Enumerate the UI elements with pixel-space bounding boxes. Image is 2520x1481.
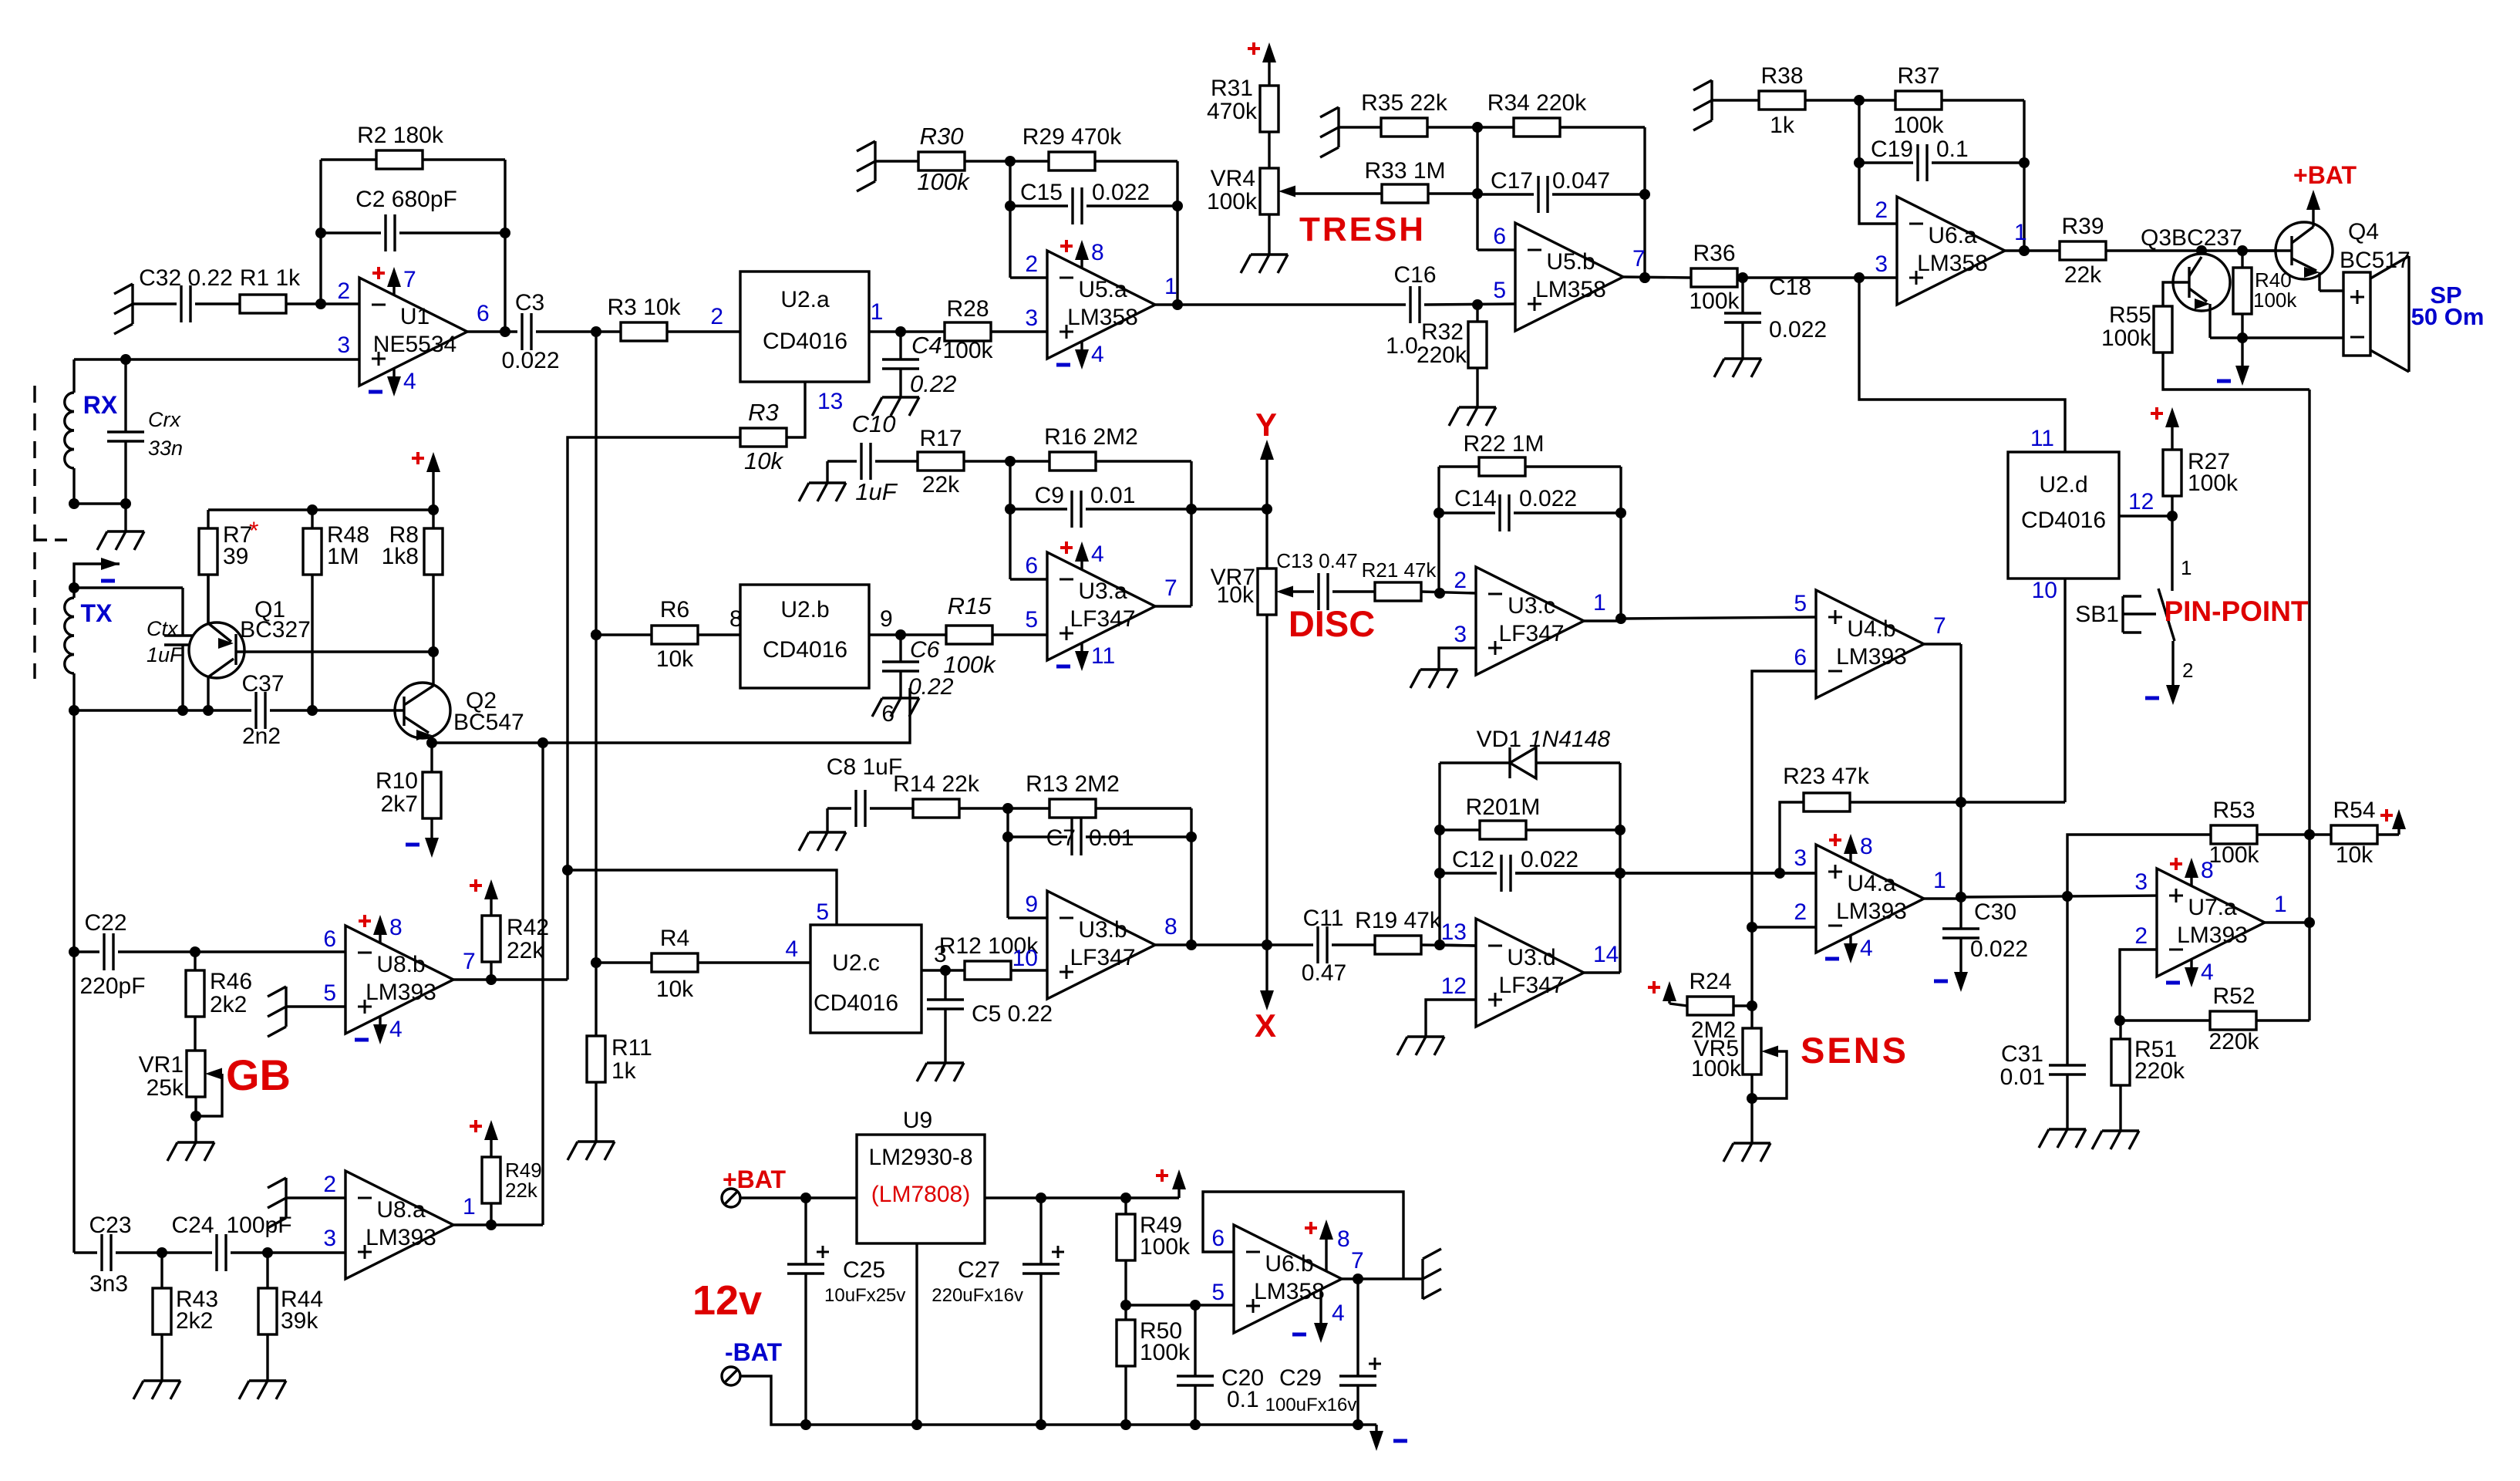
svg-text:3: 3 xyxy=(1794,845,1807,871)
svg-text:0.022: 0.022 xyxy=(1970,936,2028,962)
svg-text:11: 11 xyxy=(1091,643,1115,669)
svg-text:U5.b: U5.b xyxy=(1546,249,1595,275)
svg-text:8: 8 xyxy=(1860,834,1873,859)
svg-text:220uFx16v: 220uFx16v xyxy=(932,1285,1023,1306)
svg-text:1uF: 1uF xyxy=(147,643,184,666)
svg-text:R28: R28 xyxy=(946,296,989,322)
svg-text:5: 5 xyxy=(323,980,336,1006)
svg-text:C5 0.22: C5 0.22 xyxy=(972,1001,1053,1027)
svg-text:U4.a: U4.a xyxy=(1847,871,1896,896)
svg-text:0.022: 0.022 xyxy=(501,348,559,373)
svg-text:10: 10 xyxy=(1012,946,1038,971)
svg-text:R23 47k: R23 47k xyxy=(1783,764,1870,789)
svg-text:100k: 100k xyxy=(2188,471,2239,496)
svg-text:C27: C27 xyxy=(958,1257,1000,1283)
svg-text:Ctx: Ctx xyxy=(147,617,179,640)
svg-text:10k: 10k xyxy=(656,646,694,672)
svg-text:C8 1uF: C8 1uF xyxy=(827,754,902,780)
svg-text:C14: C14 xyxy=(1454,486,1497,511)
svg-text:BC547: BC547 xyxy=(453,710,524,735)
svg-text:LM393: LM393 xyxy=(2177,923,2248,948)
svg-text:U4.b: U4.b xyxy=(1847,616,1895,642)
svg-text:10k: 10k xyxy=(744,447,783,474)
svg-text:220k: 220k xyxy=(2134,1058,2185,1084)
svg-text:0.1: 0.1 xyxy=(1936,137,1969,162)
svg-text:SB1: SB1 xyxy=(2075,602,2119,627)
svg-text:4: 4 xyxy=(2201,960,2214,985)
svg-text:5: 5 xyxy=(1493,278,1506,303)
svg-text:3: 3 xyxy=(337,332,350,358)
svg-text:LM393: LM393 xyxy=(1836,899,1907,924)
svg-text:22k: 22k xyxy=(2064,262,2102,288)
svg-text:Crx: Crx xyxy=(148,408,181,431)
svg-text:2k2: 2k2 xyxy=(210,992,247,1017)
svg-text:2n2: 2n2 xyxy=(242,724,281,749)
svg-text:10k: 10k xyxy=(1217,582,1255,608)
svg-text:100uFx16v: 100uFx16v xyxy=(1265,1395,1357,1415)
svg-text:R1 1k: R1 1k xyxy=(240,265,301,291)
svg-text:100k: 100k xyxy=(1893,113,1944,138)
svg-text:1.0: 1.0 xyxy=(1386,333,1418,359)
svg-text:0.022: 0.022 xyxy=(1519,486,1577,511)
svg-text:7: 7 xyxy=(463,949,476,974)
svg-text:5: 5 xyxy=(1794,591,1807,616)
svg-text:R11: R11 xyxy=(611,1035,652,1061)
svg-text:-BAT: -BAT xyxy=(725,1338,783,1366)
svg-text:2: 2 xyxy=(337,278,350,304)
svg-text:10: 10 xyxy=(2032,578,2057,603)
svg-text:R32: R32 xyxy=(1421,319,1464,345)
svg-text:5: 5 xyxy=(1025,607,1038,633)
svg-text:C25: C25 xyxy=(843,1257,885,1283)
svg-text:RX: RX xyxy=(83,391,118,419)
svg-text:470k: 470k xyxy=(1207,99,1258,124)
svg-text:BC327: BC327 xyxy=(240,617,311,643)
svg-text:1: 1 xyxy=(871,299,884,325)
svg-text:C16: C16 xyxy=(1393,262,1436,288)
svg-text:LM358: LM358 xyxy=(1535,277,1606,302)
svg-text:Q3BC237: Q3BC237 xyxy=(2141,225,2242,251)
svg-text:CD4016: CD4016 xyxy=(763,637,847,663)
svg-text:0.01: 0.01 xyxy=(1090,483,1135,508)
svg-text:R37: R37 xyxy=(1897,63,1939,89)
svg-text:100k: 100k xyxy=(2253,288,2297,312)
svg-text:U2.b: U2.b xyxy=(780,597,829,622)
svg-text:C17: C17 xyxy=(1491,168,1533,194)
svg-text:2: 2 xyxy=(2182,659,2193,682)
svg-text:U8.b: U8.b xyxy=(376,952,425,977)
svg-text:LM358: LM358 xyxy=(1067,305,1138,330)
svg-text:VR1: VR1 xyxy=(139,1052,184,1078)
svg-text:7: 7 xyxy=(403,267,416,292)
svg-text:0.22: 0.22 xyxy=(910,370,956,397)
svg-text:2k7: 2k7 xyxy=(381,791,418,817)
svg-text:C2 680pF: C2 680pF xyxy=(355,187,457,212)
svg-text:LM2930-8: LM2930-8 xyxy=(868,1145,972,1170)
svg-text:C6: C6 xyxy=(910,637,940,663)
svg-text:4: 4 xyxy=(1332,1301,1345,1326)
svg-text:220k: 220k xyxy=(1417,342,1467,368)
svg-text:12: 12 xyxy=(1441,973,1467,999)
svg-text:100k: 100k xyxy=(942,338,993,363)
svg-text:R10: R10 xyxy=(376,768,418,794)
svg-text:R24: R24 xyxy=(1689,969,1731,994)
svg-text:R35 22k: R35 22k xyxy=(1361,90,1448,116)
svg-text:U3.c: U3.c xyxy=(1508,593,1555,619)
svg-text:U5.a: U5.a xyxy=(1078,277,1127,302)
svg-text:1: 1 xyxy=(1593,590,1606,616)
svg-text:100k: 100k xyxy=(2208,842,2259,868)
svg-text:CD4016: CD4016 xyxy=(763,329,847,354)
svg-text:X: X xyxy=(1255,1007,1276,1044)
svg-text:39: 39 xyxy=(223,544,248,569)
svg-text:R13 2M2: R13 2M2 xyxy=(1026,771,1120,797)
svg-text:LM393: LM393 xyxy=(1836,644,1907,670)
svg-text:1: 1 xyxy=(1933,868,1946,893)
svg-text:C13 0.47: C13 0.47 xyxy=(1276,549,1358,572)
svg-text:9: 9 xyxy=(880,606,893,632)
svg-text:7: 7 xyxy=(1632,246,1646,272)
svg-text:CD4016: CD4016 xyxy=(814,990,898,1016)
svg-text:2: 2 xyxy=(2134,923,2148,949)
svg-text:C30: C30 xyxy=(1974,899,2016,925)
svg-text:220k: 220k xyxy=(2208,1029,2259,1054)
svg-text:TRESH: TRESH xyxy=(1299,211,1426,248)
svg-text:VR4: VR4 xyxy=(1211,166,1255,191)
svg-text:8: 8 xyxy=(1164,914,1177,940)
svg-text:0.047: 0.047 xyxy=(1552,168,1610,194)
svg-text:C9: C9 xyxy=(1035,483,1064,508)
svg-text:U2.a: U2.a xyxy=(780,287,830,312)
svg-text:3: 3 xyxy=(1875,251,1888,277)
svg-text:4: 4 xyxy=(785,936,798,962)
svg-text:R15: R15 xyxy=(948,592,992,619)
svg-text:2: 2 xyxy=(1025,251,1038,277)
svg-text:LM358: LM358 xyxy=(1254,1279,1325,1304)
svg-text:1: 1 xyxy=(463,1194,476,1220)
svg-text:R31: R31 xyxy=(1211,76,1253,101)
svg-text:4: 4 xyxy=(1091,541,1104,567)
svg-text:CD4016: CD4016 xyxy=(2021,508,2106,533)
svg-text:0.47: 0.47 xyxy=(1302,960,1346,986)
svg-text:+BAT: +BAT xyxy=(723,1166,787,1193)
svg-text:R38: R38 xyxy=(1760,63,1803,89)
svg-text:C15: C15 xyxy=(1020,180,1063,205)
svg-text:10k: 10k xyxy=(2336,842,2373,868)
svg-text:3: 3 xyxy=(323,1226,336,1251)
svg-text:R16 2M2: R16 2M2 xyxy=(1044,424,1138,450)
svg-text:*: * xyxy=(249,517,258,545)
svg-text:22k: 22k xyxy=(507,938,544,963)
svg-text:C32 0.22: C32 0.22 xyxy=(139,265,233,291)
svg-text:11: 11 xyxy=(2030,426,2054,451)
svg-text:10k: 10k xyxy=(656,977,694,1002)
svg-text:U7.a: U7.a xyxy=(2188,895,2237,920)
svg-text:100k: 100k xyxy=(1689,288,1740,314)
svg-text:3: 3 xyxy=(1454,622,1467,647)
svg-text:R33 1M: R33 1M xyxy=(1364,158,1445,184)
svg-text:4: 4 xyxy=(403,369,416,394)
svg-text:U1: U1 xyxy=(400,304,430,329)
svg-text:U8.a: U8.a xyxy=(376,1197,426,1223)
svg-text:100k: 100k xyxy=(2101,326,2152,351)
svg-text:U2.c: U2.c xyxy=(832,950,880,976)
svg-text:U6.a: U6.a xyxy=(1928,223,1977,248)
svg-text:2: 2 xyxy=(710,304,723,329)
svg-text:4: 4 xyxy=(389,1017,403,1042)
svg-text:6: 6 xyxy=(1025,553,1038,579)
svg-text:NE5534: NE5534 xyxy=(373,332,456,357)
svg-text:12: 12 xyxy=(2128,489,2154,514)
svg-text:R29 470k: R29 470k xyxy=(1022,124,1122,150)
svg-text:1uF: 1uF xyxy=(855,478,898,505)
svg-text:R22 1M: R22 1M xyxy=(1463,431,1544,457)
svg-text:R3: R3 xyxy=(748,399,779,426)
svg-text:2: 2 xyxy=(1454,568,1467,593)
svg-text:1: 1 xyxy=(2274,892,2287,917)
svg-text:C23: C23 xyxy=(89,1213,131,1238)
svg-text:25k: 25k xyxy=(147,1075,184,1101)
svg-text:C7: C7 xyxy=(1046,825,1076,851)
svg-text:8: 8 xyxy=(389,915,403,940)
svg-text:R39: R39 xyxy=(2061,214,2104,239)
svg-text:8: 8 xyxy=(1091,240,1104,265)
svg-text:LF347: LF347 xyxy=(1070,606,1135,632)
svg-text:R30: R30 xyxy=(920,123,964,150)
svg-text:U2.d: U2.d xyxy=(2039,472,2087,498)
svg-text:C3: C3 xyxy=(515,290,544,315)
svg-text:10uFx25v: 10uFx25v xyxy=(824,1285,905,1306)
svg-text:2k2: 2k2 xyxy=(176,1308,213,1334)
svg-text:1: 1 xyxy=(2181,556,2192,579)
svg-text:5: 5 xyxy=(1211,1280,1225,1305)
svg-text:0.022: 0.022 xyxy=(1521,847,1578,872)
svg-text:0.01: 0.01 xyxy=(1089,825,1134,851)
svg-text:R19 47k: R19 47k xyxy=(1355,908,1442,933)
svg-text:8: 8 xyxy=(729,606,743,632)
svg-text:+BAT: +BAT xyxy=(2293,161,2357,189)
svg-text:13: 13 xyxy=(817,389,843,414)
svg-text:7: 7 xyxy=(1933,613,1946,639)
svg-text:R55: R55 xyxy=(2109,302,2151,328)
svg-text:R2 180k: R2 180k xyxy=(357,123,444,148)
svg-text:6: 6 xyxy=(1493,224,1506,249)
svg-text:22k: 22k xyxy=(505,1179,538,1202)
svg-text:1k: 1k xyxy=(1770,113,1795,138)
svg-text:LM393: LM393 xyxy=(366,1225,436,1250)
svg-text:VD1: VD1 xyxy=(1477,727,1521,752)
svg-text:Q4: Q4 xyxy=(2348,219,2379,245)
svg-text:39k: 39k xyxy=(281,1308,318,1334)
svg-text:LF347: LF347 xyxy=(1498,621,1564,646)
svg-text:1: 1 xyxy=(2014,220,2027,245)
svg-text:R201M: R201M xyxy=(1466,794,1541,820)
svg-text:LM358: LM358 xyxy=(1917,251,1988,276)
svg-text:3: 3 xyxy=(1025,305,1038,331)
svg-text:R3 10k: R3 10k xyxy=(607,295,681,320)
svg-text:SENS: SENS xyxy=(1801,1030,1909,1071)
svg-text:100k: 100k xyxy=(1140,1340,1191,1365)
svg-text:R34 220k: R34 220k xyxy=(1487,90,1587,116)
svg-text:U3.a: U3.a xyxy=(1078,579,1127,604)
svg-text:DISC: DISC xyxy=(1289,603,1375,644)
svg-text:100k: 100k xyxy=(1691,1056,1742,1081)
svg-text:1k8: 1k8 xyxy=(382,544,419,569)
svg-text:Y: Y xyxy=(1255,407,1277,443)
svg-text:5: 5 xyxy=(816,899,829,925)
svg-text:1M: 1M xyxy=(327,544,359,569)
svg-text:6: 6 xyxy=(1211,1226,1225,1251)
svg-text:1N4148: 1N4148 xyxy=(1529,727,1610,752)
svg-text:C31: C31 xyxy=(2001,1041,2043,1067)
svg-text:0.022: 0.022 xyxy=(1092,180,1150,205)
svg-text:6: 6 xyxy=(1794,645,1807,670)
svg-text:R36: R36 xyxy=(1693,241,1735,266)
svg-text:50 Om: 50 Om xyxy=(2411,303,2485,330)
svg-text:C11: C11 xyxy=(1303,906,1344,931)
svg-text:C18: C18 xyxy=(1769,275,1811,300)
svg-text:C29: C29 xyxy=(1279,1365,1322,1391)
svg-text:100k: 100k xyxy=(943,651,996,678)
svg-text:2: 2 xyxy=(1875,197,1888,223)
svg-text:3: 3 xyxy=(2134,869,2148,895)
svg-text:GB: GB xyxy=(226,1051,291,1099)
svg-text:2: 2 xyxy=(1794,899,1807,925)
svg-text:14: 14 xyxy=(1593,942,1619,967)
svg-text:12v: 12v xyxy=(692,1277,762,1324)
svg-text:33n: 33n xyxy=(148,437,183,460)
svg-text:R52: R52 xyxy=(2212,983,2255,1009)
svg-text:U3.d: U3.d xyxy=(1507,945,1555,970)
svg-text:0.022: 0.022 xyxy=(1769,317,1827,342)
svg-text:100pF: 100pF xyxy=(226,1213,291,1238)
svg-text:R46: R46 xyxy=(210,969,252,994)
svg-text:2: 2 xyxy=(323,1172,336,1197)
svg-text:100k: 100k xyxy=(917,168,970,195)
svg-text:R21 47k: R21 47k xyxy=(1362,558,1437,582)
svg-text:LF347: LF347 xyxy=(1070,945,1135,970)
svg-text:R54: R54 xyxy=(2333,798,2375,823)
svg-text:8: 8 xyxy=(1337,1226,1350,1252)
svg-text:C37: C37 xyxy=(241,671,284,697)
svg-text:C19: C19 xyxy=(1871,137,1913,162)
svg-text:R17: R17 xyxy=(919,426,962,451)
svg-text:0.1: 0.1 xyxy=(1227,1387,1259,1412)
svg-text:22k: 22k xyxy=(922,472,960,498)
svg-text:6: 6 xyxy=(323,926,336,952)
svg-text:4: 4 xyxy=(1860,936,1873,961)
svg-text:4: 4 xyxy=(1091,342,1104,367)
svg-text:U3.b: U3.b xyxy=(1078,917,1127,943)
svg-text:C12: C12 xyxy=(1452,847,1494,872)
svg-text:1: 1 xyxy=(1164,274,1177,299)
svg-text:LM393: LM393 xyxy=(366,980,436,1005)
svg-text:R4: R4 xyxy=(660,926,689,951)
svg-text:U6.b: U6.b xyxy=(1265,1251,1313,1277)
svg-text:7: 7 xyxy=(1351,1248,1364,1274)
svg-text:C22: C22 xyxy=(84,910,126,936)
svg-text:PIN-POINT: PIN-POINT xyxy=(2164,595,2308,627)
svg-text:C24: C24 xyxy=(171,1213,214,1238)
svg-text:7: 7 xyxy=(1164,575,1177,601)
svg-text:(LM7808): (LM7808) xyxy=(871,1182,970,1207)
svg-text:TX: TX xyxy=(81,599,113,627)
svg-text:R53: R53 xyxy=(2212,798,2255,823)
svg-text:220pF: 220pF xyxy=(79,973,145,999)
svg-text:6: 6 xyxy=(477,301,490,326)
svg-text:U9: U9 xyxy=(903,1108,932,1133)
svg-text:R6: R6 xyxy=(660,597,689,622)
svg-text:100k: 100k xyxy=(1207,189,1258,214)
svg-text:LF347: LF347 xyxy=(1498,973,1564,998)
svg-text:3n3: 3n3 xyxy=(89,1271,128,1297)
svg-text:9: 9 xyxy=(1025,892,1038,917)
svg-text:1k: 1k xyxy=(611,1058,637,1084)
svg-text:0.01: 0.01 xyxy=(2000,1064,2045,1090)
svg-text:100k: 100k xyxy=(1140,1234,1191,1260)
svg-text:R14 22k: R14 22k xyxy=(893,771,980,797)
svg-text:13: 13 xyxy=(1441,919,1467,945)
svg-text:C4: C4 xyxy=(911,332,942,359)
